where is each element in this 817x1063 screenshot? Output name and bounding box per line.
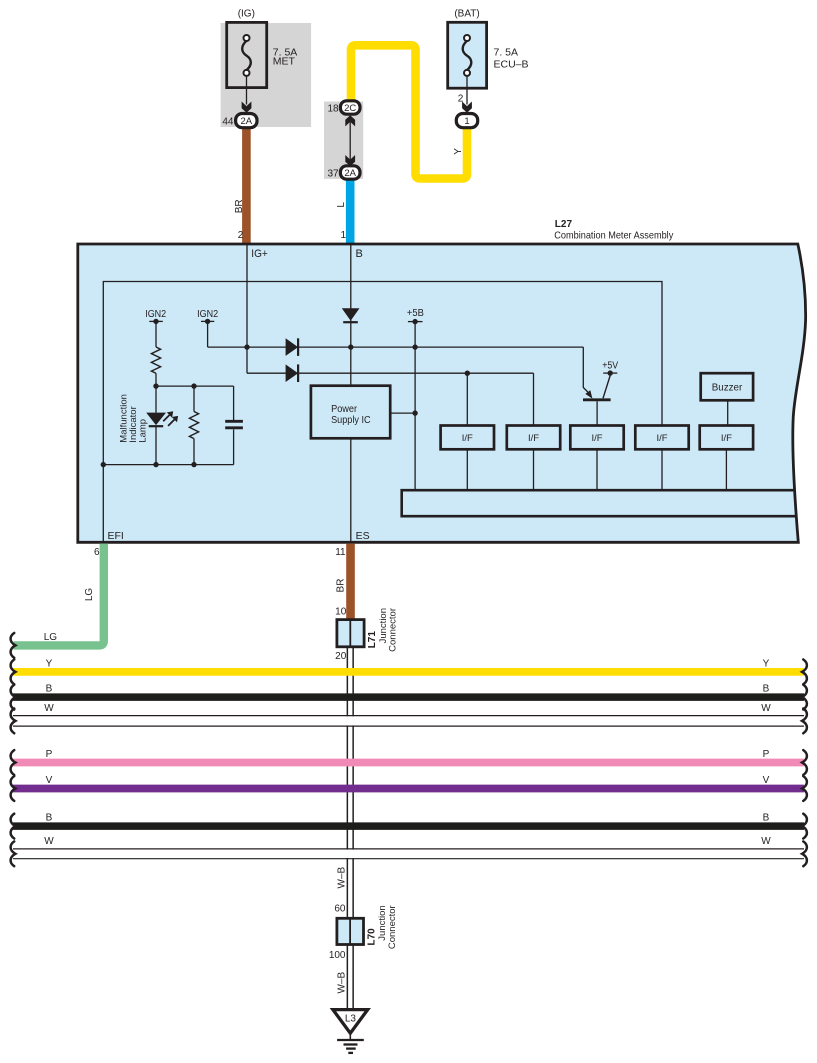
svg-text:BR: BR <box>234 199 245 213</box>
svg-text:1: 1 <box>340 230 346 241</box>
svg-text:20: 20 <box>335 651 347 662</box>
svg-text:Y: Y <box>453 148 464 155</box>
svg-text:ECU–B: ECU–B <box>494 58 529 70</box>
svg-text:(IG): (IG) <box>238 9 255 20</box>
svg-text:W: W <box>761 703 771 714</box>
svg-text:Buzzer: Buzzer <box>712 383 743 394</box>
svg-text:V: V <box>763 775 770 786</box>
svg-text:IGN2: IGN2 <box>197 309 218 320</box>
svg-text:2A: 2A <box>344 168 356 179</box>
svg-text:18: 18 <box>327 103 339 114</box>
svg-text:ES: ES <box>356 530 370 542</box>
svg-text:L71: L71 <box>367 631 378 649</box>
svg-text:Lamp: Lamp <box>138 419 149 443</box>
svg-text:1: 1 <box>464 116 469 127</box>
svg-text:LG: LG <box>84 588 95 602</box>
svg-text:Power: Power <box>331 404 358 415</box>
svg-text:I/F: I/F <box>656 433 667 444</box>
svg-text:EFI: EFI <box>108 530 124 542</box>
svg-text:B: B <box>356 248 363 260</box>
svg-text:2: 2 <box>238 230 244 241</box>
svg-text:2A: 2A <box>240 116 252 127</box>
svg-text:Combination Meter Assembly: Combination Meter Assembly <box>554 229 674 241</box>
svg-text:L3: L3 <box>345 1014 357 1025</box>
svg-text:W: W <box>44 836 54 847</box>
svg-text:+5B: +5B <box>407 308 424 319</box>
svg-text:I/F: I/F <box>528 433 539 444</box>
svg-text:10: 10 <box>335 606 347 617</box>
svg-text:Y: Y <box>46 658 53 669</box>
svg-text:2C: 2C <box>344 103 356 114</box>
svg-text:Connector: Connector <box>387 905 398 949</box>
svg-text:W: W <box>761 836 771 847</box>
svg-text:Connector: Connector <box>388 608 399 652</box>
svg-text:L: L <box>336 202 347 208</box>
svg-text:IGN2: IGN2 <box>145 309 166 320</box>
svg-text:11: 11 <box>335 547 346 558</box>
svg-text:B: B <box>46 813 53 824</box>
svg-text:37: 37 <box>327 168 339 179</box>
svg-text:W–B: W–B <box>337 867 348 889</box>
svg-text:44: 44 <box>222 117 234 128</box>
svg-text:Supply IC: Supply IC <box>331 415 371 426</box>
svg-text:BR: BR <box>336 579 347 593</box>
svg-text:B: B <box>763 813 770 824</box>
svg-text:IG+: IG+ <box>251 248 267 260</box>
svg-text:I/F: I/F <box>462 433 473 444</box>
svg-text:7. 5A: 7. 5A <box>494 46 519 58</box>
svg-text:B: B <box>763 684 770 695</box>
svg-text:100: 100 <box>329 950 346 961</box>
svg-text:V: V <box>46 775 53 786</box>
svg-text:LG: LG <box>44 632 58 643</box>
svg-text:I/F: I/F <box>591 433 602 444</box>
svg-text:+5V: +5V <box>602 360 618 371</box>
svg-text:P: P <box>763 749 770 760</box>
svg-text:(BAT): (BAT) <box>454 9 479 20</box>
svg-text:6: 6 <box>94 547 100 558</box>
svg-text:L70: L70 <box>367 928 378 946</box>
svg-text:B: B <box>46 684 53 695</box>
svg-text:MET: MET <box>273 56 296 68</box>
svg-text:W–B: W–B <box>337 972 348 994</box>
svg-text:Y: Y <box>763 658 770 669</box>
svg-text:I/F: I/F <box>721 433 732 444</box>
svg-text:60: 60 <box>334 904 346 915</box>
svg-text:W: W <box>44 703 54 714</box>
svg-text:P: P <box>46 749 53 760</box>
